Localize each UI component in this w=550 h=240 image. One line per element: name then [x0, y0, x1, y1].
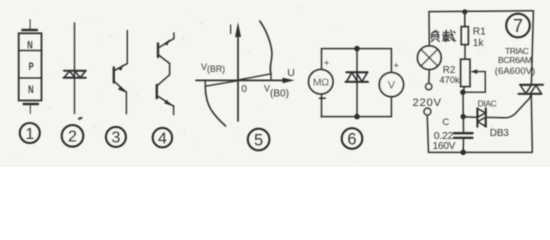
upper emitter diagonal: [114, 64, 127, 71]
node wiper junction: [460, 90, 465, 95]
figure 1: DIAC NPN structure: [19, 20, 42, 114]
Q1 arrowhead: [164, 39, 170, 45]
U axis arrowhead: [283, 78, 295, 84]
right wire lower: [531, 94, 532, 152]
Q2 emitter diagonal: [157, 96, 174, 107]
minus sign: [320, 97, 326, 99]
wire R2 to node: [463, 87, 465, 93]
diac top bar: [64, 70, 86, 72]
Q2 arrowhead: [164, 100, 172, 106]
svg-text:V(B0): V(B0): [264, 83, 289, 99]
diac DB3: [477, 108, 485, 126]
node diac tee: [461, 114, 466, 119]
figure 2: DIAC symbol: [64, 23, 86, 114]
upper arrowhead: [118, 64, 124, 70]
Q3 breakover tick: [204, 80, 206, 86]
figure 6: DIAC test circuit: [321, 49, 391, 117]
terminal upper: [426, 84, 432, 90]
I axis: [237, 35, 239, 121]
middle branch wire: [356, 49, 358, 117]
left branch wire: [321, 49, 323, 117]
svg-text:DIAC: DIAC: [478, 99, 497, 109]
node bottom wire: [460, 150, 466, 156]
figure 5: V-I characteristic curve: [196, 21, 295, 126]
svg-text:V: V: [388, 80, 396, 92]
svg-text:4: 4: [158, 130, 167, 147]
gate wire DB3 to triac: [486, 95, 530, 118]
lower arrowhead: [118, 86, 125, 92]
triac symbol: [519, 85, 544, 94]
svg-text:160V: 160V: [433, 141, 456, 152]
R2 wiper arrow: [463, 69, 485, 92]
node bottom: [354, 114, 360, 120]
resistor R1: [461, 27, 468, 45]
U axis: [196, 79, 284, 81]
circled number 3: [106, 127, 126, 147]
wire R1 to R2: [464, 45, 466, 60]
svg-text:220V: 220V: [413, 97, 442, 109]
lamp (load): [418, 46, 442, 70]
svg-text:1k: 1k: [473, 38, 485, 49]
wire capacitor to bottom: [462, 138, 464, 152]
diac right triangle: [75, 71, 86, 78]
Q1 collector diagonal: [158, 55, 170, 64]
Q1 leakage segment: [238, 74, 271, 80]
Q1 base bar: [157, 44, 159, 58]
svg-text:+: +: [394, 60, 399, 70]
lower emitter diagonal: [114, 81, 127, 92]
Q1 breakover tick: [270, 74, 272, 80]
svg-text:BCR6AM: BCR6AM: [498, 55, 532, 65]
svg-text:DB3: DB3: [490, 128, 509, 139]
right wire upper: [531, 11, 533, 84]
diac bottom bar: [64, 77, 86, 79]
circled number 5: [248, 129, 270, 151]
transistor Q1 emitter diagonal: [158, 39, 174, 49]
top wire: [173, 33, 175, 39]
right branch wire: [390, 49, 392, 117]
megohmmeter MΩ: [309, 70, 333, 94]
transistor Q2 base bar: [156, 85, 158, 98]
capacitor C plates: [454, 133, 473, 138]
svg-text:V(BR): V(BR): [201, 62, 225, 74]
wire node to diac tee: [462, 92, 464, 116]
figure 7: lamp dimmer circuit: [427, 11, 533, 153]
circled number 7: [506, 14, 530, 38]
top wire: [429, 10, 533, 13]
bottom wire: [321, 116, 390, 118]
layer divider 1: [19, 50, 42, 52]
top wire: [126, 31, 128, 64]
Q3 leakage segment: [205, 81, 238, 87]
I axis arrowhead: [235, 22, 241, 37]
svg-text:N: N: [28, 83, 33, 96]
wire tee to capacitor: [462, 117, 464, 133]
bottom electrode bar: [24, 103, 38, 105]
diac left triangle: [64, 71, 75, 78]
link wire: [157, 64, 170, 86]
circled number 2: [62, 125, 84, 147]
svg-text:470k: 470k: [440, 75, 461, 85]
svg-text:(6A600V): (6A600V): [495, 65, 535, 76]
svg-text:+: +: [324, 58, 329, 68]
svg-text:0: 0: [241, 84, 247, 95]
circled number 4: [153, 128, 172, 147]
svg-text:5: 5: [254, 132, 263, 150]
bottom wire: [429, 151, 533, 153]
top lead: [29, 20, 31, 31]
svg-text:P: P: [29, 61, 34, 74]
body box: [19, 33, 42, 100]
left wire upper: [428, 12, 430, 46]
base bar: [113, 68, 115, 83]
figure 4: two-transistor equivalent: [157, 33, 174, 115]
svg-text:I: I: [229, 22, 233, 37]
svg-text:7: 7: [513, 16, 523, 36]
wire top to R1: [464, 12, 466, 27]
svg-text:N: N: [27, 39, 32, 52]
wire lamp to terminal: [428, 70, 431, 84]
svg-text:U: U: [287, 67, 295, 79]
bottom wire: [173, 106, 175, 115]
circled number 1: [20, 123, 40, 143]
bottom wire: [125, 92, 127, 114]
Q3 negative-resistance curve: [205, 86, 225, 126]
voltmeter V: [379, 73, 403, 97]
svg-text:MΩ: MΩ: [313, 77, 329, 89]
top electrode bar: [22, 29, 37, 31]
diac symbol: [346, 72, 369, 82]
potentiometer R2: [461, 59, 470, 86]
layer divider 2: [19, 77, 42, 79]
svg-text:2: 2: [68, 129, 77, 146]
circled number 6: [342, 128, 363, 149]
wire: [74, 23, 76, 114]
bottom lead: [29, 104, 31, 114]
label 负载 (load) drawn as strokes: [431, 30, 455, 42]
svg-text:C: C: [442, 117, 449, 128]
figure 3: single-transistor equivalent: [114, 31, 128, 114]
svg-text:R1: R1: [473, 27, 486, 38]
scan speckles: [16, 7, 534, 163]
svg-text:6: 6: [347, 131, 356, 149]
wire terminal to corner: [427, 115, 428, 152]
node R1 top: [462, 9, 467, 14]
Q1 negative-resistance curve: [260, 21, 272, 74]
node top: [354, 46, 360, 52]
terminal lower: [424, 108, 431, 115]
wire tee to DB3: [463, 116, 477, 118]
svg-text:3: 3: [111, 130, 120, 147]
svg-text:1: 1: [25, 126, 34, 143]
top wire: [322, 48, 392, 50]
